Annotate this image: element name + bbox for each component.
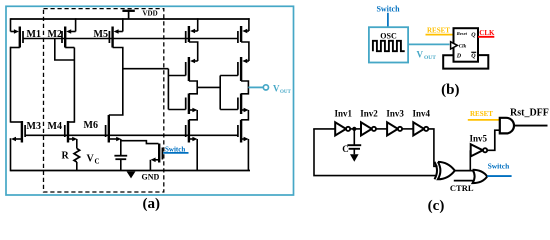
svg-text:Switch: Switch [488, 162, 510, 171]
square-wave symbol [373, 41, 405, 51]
wire: stage 1 upper gate stub [168, 75, 185, 77]
VOUT wire (cyan) [248, 86, 263, 88]
wire: tap down to capacitor C [353, 129, 355, 145]
wire: left rail VDD to M1 source [10, 18, 12, 31]
M3 source lead with arrow [11, 137, 22, 142]
svg-text:Inv3: Inv3 [386, 109, 404, 119]
svg-text:Q: Q [471, 54, 476, 60]
wire: VC node to switch transistor drain [121, 141, 159, 144]
wire: switch source to ground rail [149, 160, 151, 171]
panel frame of (a) [6, 6, 294, 195]
transistor M4 (NMOS) [65, 121, 68, 143]
transistor M5 (PMOS) [109, 27, 112, 48]
svg-text:OSC: OSC [380, 31, 397, 40]
inverter Inv1 [335, 122, 350, 135]
inverter Inv2 [361, 122, 376, 135]
svg-text:M3: M3 [27, 121, 41, 132]
svg-text:RESET: RESET [427, 27, 450, 35]
transistor stage1 cascode PMOS top [186, 26, 189, 43]
svg-text:Inv4: Inv4 [413, 109, 431, 119]
wire: Inv2 output to Inv3 input [376, 128, 387, 130]
svg-text:V: V [87, 154, 95, 165]
wire: stage2 input vertical [219, 76, 221, 110]
wire: M2 diode connection gate to drain [55, 39, 75, 61]
stage1 signal NMOS source arrow [189, 108, 198, 113]
stage1 cascode NMOS source arrow [189, 137, 198, 142]
stage2 cascode NMOS source arrow [241, 137, 249, 142]
svg-text:(b): (b) [441, 82, 459, 98]
svg-text:C: C [342, 144, 349, 154]
junction node at capacitor tap [353, 127, 356, 130]
wire: PMOS common gate line [23, 38, 238, 40]
wire: stage2 signal NMOS source to cascode NMOS drain [241, 110, 248, 120]
wire: stage 1 lower gate stub [168, 109, 185, 111]
wire: stage2 top PMOS source drop [248, 18, 250, 31]
ground symbol under C [350, 154, 359, 162]
svg-text:V: V [273, 83, 280, 93]
wire: M3 drain lead from left rail [11, 121, 22, 123]
svg-text:Inv5: Inv5 [469, 134, 487, 144]
wire: stage1 cascode NMOS source to ground rail [196, 139, 198, 171]
AND gate Rst_DFF [500, 118, 514, 134]
RESET wire to AND gate [468, 119, 500, 121]
wire: feedback around delay chain [314, 129, 436, 176]
svg-text:RESET: RESET [470, 110, 493, 118]
transistor stage2 cascode PMOS top [238, 26, 241, 43]
capacitor C [347, 145, 361, 149]
inverter Inv4 [413, 122, 428, 135]
wire: capacitor to ground rail [120, 159, 122, 171]
ground symbol [127, 172, 136, 179]
wire: stage2 signal NMOS drain to output node [241, 87, 248, 93]
wire: M4 source to resistor [76, 139, 78, 149]
transistor M3 (NMOS) [22, 121, 25, 143]
wire: M6 source down to capacitor [120, 139, 122, 156]
inverter Inv3 [387, 122, 402, 135]
XOR gate [435, 162, 455, 179]
wire: stage1 top PMOS source drop [197, 18, 199, 31]
svg-text:VDD: VDD [143, 10, 158, 18]
D flip-flop U1 [454, 28, 479, 62]
transistor stage1 cascode NMOS bottom [186, 120, 189, 143]
oscillator block OSC [369, 27, 408, 62]
stage1 top PMOS source arrow [190, 29, 198, 34]
inverter Inv5 [471, 144, 488, 156]
switch transistor source lead with arrow [151, 158, 160, 163]
wire: M3 source down to ground rail [10, 138, 12, 171]
wire: NMOS common gate line [25, 134, 238, 136]
VDD supply rail (top) [11, 18, 250, 20]
svg-text:C: C [95, 158, 100, 166]
svg-text:Inv1: Inv1 [334, 109, 352, 119]
svg-text:Clk: Clk [459, 43, 467, 49]
wire: Q-bar feedback loop to D input [443, 55, 488, 69]
M1 source lead with arrow [11, 29, 19, 34]
svg-text:Rst_DFF: Rst_DFF [510, 107, 549, 118]
wire: stage 1 input vertical [167, 69, 169, 110]
wire: XOR output up to Inv5 [469, 150, 471, 170]
stage2 signal PMOS source arrow [242, 59, 249, 64]
transistor stage1 signal NMOS [186, 94, 189, 115]
svg-text:OUT: OUT [424, 55, 436, 61]
wire: M4 drain lead [68, 121, 74, 123]
wire: stage1 output to stage2 input [197, 86, 220, 88]
svg-text:CLK: CLK [479, 29, 495, 37]
wire: stage1 signal NMOS source to cascode NMOS drain [189, 110, 197, 120]
wire: capacitor to ground arrow [353, 149, 355, 155]
svg-text:OUT: OUT [280, 90, 292, 95]
svg-text:Q: Q [471, 33, 476, 39]
transistor stage1 signal PMOS [186, 57, 189, 81]
Switch output wire (blue) [487, 175, 511, 177]
wire: M5 source drop from VDD rail [122, 18, 124, 31]
ground rail (bottom) [11, 170, 251, 172]
stage1 signal PMOS source arrow [190, 59, 198, 64]
wire: stage2 top PMOS drain to second PMOS source [241, 42, 249, 61]
wire: M1 drain down to M3 drain [10, 47, 12, 123]
wire: stage1 signal PMOS drain to output node [189, 81, 197, 87]
svg-text:M4: M4 [48, 121, 62, 132]
M2 source lead with arrow [66, 29, 75, 34]
wire: stage2 cascode NMOS source to ground rail [247, 139, 249, 171]
svg-text:M5: M5 [94, 29, 108, 40]
svg-text:R: R [62, 151, 70, 162]
svg-text:D: D [456, 54, 462, 60]
M4 source lead with arrow [68, 137, 77, 142]
OR gate (switch control) [473, 170, 488, 183]
transistor stage2 cascode NMOS bottom [238, 120, 241, 143]
transistor stage2 signal NMOS [238, 94, 241, 115]
svg-text:CTRL: CTRL [450, 183, 474, 193]
pin label Q-bar [471, 52, 476, 59]
wire: M2 drain lead [65, 47, 74, 49]
svg-text:(c): (c) [428, 198, 445, 214]
CTRL input wire [454, 180, 475, 182]
svg-text:(a): (a) [143, 196, 161, 212]
VOUT terminal node [263, 85, 268, 90]
svg-text:Reset: Reset [457, 31, 468, 36]
wire: M5 drain to M6 drain [109, 48, 123, 116]
wire: resistor to ground rail [76, 162, 78, 171]
svg-text:V: V [417, 50, 424, 60]
M6 source lead with arrow [109, 137, 121, 142]
wire: Inv4 output to XOR top input [428, 129, 437, 166]
wire: M2 source drop from VDD rail [75, 18, 77, 31]
transistor M2 (PMOS) [62, 27, 65, 48]
resistor R [74, 149, 80, 163]
clock input triangle [451, 42, 458, 49]
RESET wire to flip-flop [426, 34, 454, 36]
transistor M6 (NMOS) [106, 115, 109, 143]
svg-text:Switch: Switch [165, 146, 185, 154]
wire: stage1 signal NMOS drain to output node [189, 87, 197, 93]
wire: stage1 top PMOS drain to second PMOS source [189, 42, 198, 61]
wire: stage2 upper gate stub [220, 75, 238, 77]
delay-chain input wire [313, 128, 335, 130]
svg-text:Inv2: Inv2 [360, 109, 378, 119]
svg-text:M6: M6 [84, 120, 98, 131]
VC label [87, 154, 100, 166]
stage2 signal NMOS source arrow [241, 108, 249, 113]
wire: Inv5 output to AND gate [487, 130, 499, 150]
stage2 top PMOS source arrow [242, 29, 249, 34]
wire: M5/M6 drain node to inverter stage 1 input [123, 68, 169, 70]
VDD symbol [122, 11, 134, 19]
transistor M1 (PMOS) [20, 27, 23, 48]
wire: M1 drain lead [11, 47, 20, 49]
capacitor VC [114, 156, 127, 160]
wire: Inv3 output to Inv4 input [402, 128, 413, 130]
wire: AND gate output [514, 125, 548, 127]
Switch gate wire (blue) [163, 152, 188, 154]
wire: stage2 signal PMOS drain to output node [241, 81, 248, 87]
VOUT wire OSC to flip-flop clock [408, 43, 449, 45]
svg-text:Switch: Switch [376, 5, 400, 14]
wire: XOR output to OR gate [455, 170, 474, 172]
VOUT label (b) [417, 50, 437, 62]
wire: stage2 lower gate stub [220, 109, 238, 111]
wire: M2 drain down to M4 drain [73, 48, 75, 123]
VOUT label [273, 83, 292, 95]
transistor stage2 signal PMOS [238, 57, 241, 81]
CLK output wire (red) [478, 36, 494, 38]
Switch wire into OSC [387, 13, 389, 27]
transistor switch transistor (NMOS) [159, 144, 162, 163]
svg-text:GND: GND [142, 173, 160, 182]
wire: Inv1 output to Inv2 input [350, 128, 361, 130]
M5 source lead with arrow [114, 29, 123, 34]
dashed box around bias core [44, 9, 164, 192]
